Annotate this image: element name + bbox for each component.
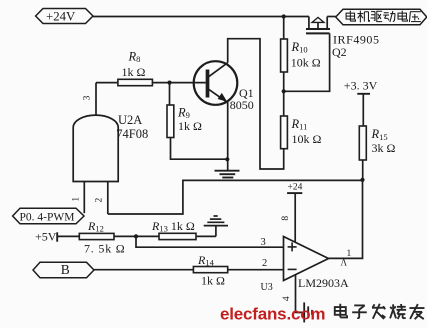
- svg-text:1k Ω: 1k Ω: [178, 119, 202, 133]
- node emitter/R9 junction: [225, 157, 229, 161]
- svg-text:10k Ω: 10k Ω: [292, 132, 322, 146]
- node R8/R9/base junction: [167, 81, 171, 85]
- svg-text:1k Ω: 1k Ω: [122, 65, 146, 79]
- svg-text:74F08: 74F08: [116, 127, 148, 141]
- power flag B: [33, 262, 94, 278]
- svg-text:10k Ω: 10k Ω: [291, 56, 321, 70]
- wire +24V rail: [93, 16, 309, 18]
- ground op-amp pin4: [304, 302, 312, 322]
- svg-text:U3: U3: [261, 282, 273, 293]
- svg-text:2: 2: [262, 258, 267, 269]
- svg-text:Q2: Q2: [332, 45, 347, 59]
- svg-text:+24V: +24V: [46, 10, 76, 24]
- svg-text:1k Ω: 1k Ω: [201, 274, 225, 288]
- wire op-amp pin4 to ground: [296, 275, 304, 313]
- resistor R14: [193, 267, 283, 273]
- power flag +24V: [36, 9, 93, 24]
- resistor R15: [359, 126, 366, 180]
- svg-text:1: 1: [72, 197, 82, 202]
- power flag P0.4-PWM: [13, 208, 84, 224]
- svg-text:3: 3: [83, 95, 93, 100]
- power tap +3.3V: [357, 94, 370, 126]
- resistor R13: [159, 233, 216, 239]
- resistor R10: [281, 17, 288, 92]
- resistor R11: [281, 91, 288, 148]
- ground Q1 emitter: [215, 171, 240, 178]
- resistor R8: [96, 79, 206, 85]
- and-gate U2A 74F08: [73, 83, 118, 214]
- svg-text:1: 1: [347, 249, 352, 259]
- op-amp U3 LM2903A: [284, 237, 329, 281]
- transistor Q2 IRF4905 p-mosfet: [306, 17, 336, 34]
- wire B to R14: [94, 269, 193, 271]
- label motor drive voltage: [346, 11, 421, 23]
- svg-text:7. 5k Ω: 7. 5k Ω: [84, 242, 126, 256]
- svg-text:R13 1k Ω: R13 1k Ω: [151, 219, 195, 234]
- node R15/output/feedback junction: [360, 178, 364, 182]
- svg-text:LM2903A: LM2903A: [298, 276, 349, 290]
- svg-text:P0. 4-PWM: P0. 4-PWM: [20, 211, 75, 223]
- power tap +24 pin8: [287, 193, 302, 242]
- svg-text:+5V: +5V: [35, 229, 57, 243]
- svg-text:3k Ω: 3k Ω: [372, 141, 396, 155]
- wire R11 bottom to Q1 collector: [228, 39, 284, 169]
- ground R13 (pointing up): [204, 216, 228, 236]
- svg-text:B: B: [61, 262, 70, 277]
- wire mosfet gate to R10/R11 junction: [284, 33, 330, 91]
- wire divider to op-amp pin3: [136, 236, 284, 247]
- svg-text:3: 3: [261, 237, 266, 248]
- svg-text:+24: +24: [288, 183, 303, 193]
- node R12/R13/pin3 junction: [134, 234, 138, 238]
- node R10/R11/gate junction: [282, 89, 286, 93]
- power tap +5V: [57, 232, 79, 241]
- resistor R9: [167, 83, 227, 160]
- svg-text:8050: 8050: [230, 98, 254, 112]
- svg-text:Λ: Λ: [341, 258, 348, 268]
- node rail/R10 junction: [282, 14, 286, 18]
- resistor R12: [79, 233, 159, 239]
- wire Q1 emitter down: [227, 102, 229, 171]
- svg-text:4: 4: [282, 296, 292, 301]
- transistor Q1 8050: [194, 61, 238, 105]
- power flag motor drive voltage: [336, 9, 427, 25]
- svg-text:8: 8: [281, 216, 291, 221]
- svg-text:U2A: U2A: [118, 113, 142, 127]
- wire and-gate pin2 feedback to R15 node: [108, 180, 363, 214]
- watermark chinese 电子发烧友: [335, 304, 425, 319]
- svg-text:+3. 3V: +3. 3V: [344, 79, 378, 93]
- svg-text:2: 2: [95, 197, 105, 202]
- svg-text:elecfans.com: elecfans.com: [220, 305, 325, 324]
- wire comparator output net A: [329, 180, 363, 259]
